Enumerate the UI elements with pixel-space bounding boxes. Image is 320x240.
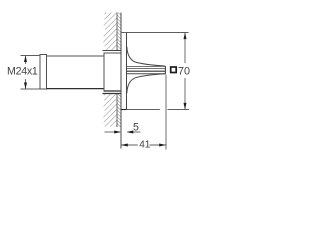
knob neck line 2 <box>127 68 166 70</box>
dim M24x1 extension line bottom <box>21 88 41 90</box>
dim square70 arrow down <box>184 103 187 110</box>
dim square70 extension line bottom (broken at 41-extension crossing) <box>127 109 160 111</box>
dim M24x1 vertical line upper segment <box>25 56 27 65</box>
wall opening bottom edge <box>103 93 122 95</box>
svg-text:41: 41 <box>139 140 151 151</box>
svg-text:M24x1: M24x1 <box>7 66 38 78</box>
dim 41 arrow pointing left at wall face <box>121 144 128 147</box>
valve body flange inside wall <box>104 53 121 91</box>
dim square70 vertical line lower segment <box>184 78 186 110</box>
valve body cylinder <box>47 56 105 89</box>
dim 5 line left segment with arrow <box>105 131 121 133</box>
dim 5 arrow pointing left at plate face <box>127 131 134 134</box>
finished wall face line <box>120 13 122 149</box>
svg-text:5: 5 <box>133 122 139 134</box>
dim 41 arrow pointing right at knob tip <box>159 144 166 147</box>
dim M24x1 extension line top <box>21 55 41 57</box>
escutcheon plate bottom shadow edge <box>121 109 127 111</box>
knob neck line 1 <box>127 65 166 67</box>
dim square70 vertical line upper segment <box>184 33 186 64</box>
dim 5 line right segment with arrow <box>128 131 141 133</box>
knob tip front face <box>164 66 166 74</box>
flange bottom shadow edge <box>104 90 121 92</box>
threaded collar M24 (left end of valve body) <box>40 55 47 90</box>
knob neck shadow line <box>127 70 166 72</box>
dim 41 extension line at knob tip <box>165 75 167 150</box>
wall layer boundary line upper <box>116 13 118 51</box>
dim 5 arrow pointing right at wall face <box>114 131 121 134</box>
knob outer silhouette bottom curve <box>127 74 166 94</box>
dim square symbol <box>171 67 177 73</box>
wall opening top edge <box>103 50 122 52</box>
valve body cylinder bottom shadow edge <box>47 88 105 90</box>
dim M24x1 arrow down <box>24 83 27 90</box>
dim M24x1 arrow up <box>24 56 27 63</box>
dim square70 arrow up <box>184 33 187 40</box>
wall upper finish/tile layer hatch <box>117 13 121 51</box>
dim square70 extension line top <box>121 32 189 34</box>
escutcheon plate on wall (side view) <box>121 33 127 110</box>
wall lower finish/tile layer hatch <box>117 94 121 128</box>
knob neck line 3 <box>127 73 166 75</box>
dim M24x1 vertical line lower segment <box>25 79 27 89</box>
wall layer boundary line lower <box>116 94 118 128</box>
knob outer silhouette top curve <box>127 47 166 67</box>
svg-text:70: 70 <box>178 65 190 77</box>
dim 41 line left segment <box>121 144 138 146</box>
wall upper rough-plaster hatch <box>103 13 117 51</box>
wall lower rough-plaster hatch <box>103 94 117 128</box>
dim 41 line right segment <box>150 144 167 146</box>
